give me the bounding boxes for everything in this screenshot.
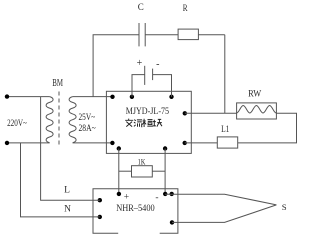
svg-text:R: R (183, 3, 188, 13)
svg-text:RW: RW (248, 89, 261, 99)
svg-text:N: N (64, 204, 71, 214)
svg-text:-: - (156, 59, 159, 70)
node: module right terminal lower (183, 141, 187, 145)
rheostat RW (237, 103, 277, 119)
svg-text:1K: 1K (138, 157, 146, 167)
svg-text:L: L (64, 185, 70, 195)
node: NHR left terminal L (98, 198, 102, 202)
node: NHR top terminal -1 (163, 192, 167, 196)
svg-text:C: C (138, 2, 144, 12)
svg-text:-: - (155, 193, 158, 203)
node: module top terminal 3 (169, 95, 173, 99)
wire: snubber left riser (93, 35, 139, 97)
node: module bottom terminal left (117, 146, 121, 150)
node: NHR left terminal N (98, 215, 102, 219)
wire: secondary bottom to module (73, 142, 113, 144)
wire: 1K right lead (152, 170, 165, 172)
wire: secondary top to module (73, 96, 113, 98)
wire: module to RW (185, 112, 237, 114)
svg-text:220V~: 220V~ (7, 119, 27, 129)
svg-text:L1: L1 (221, 125, 229, 135)
svg-text:S: S (282, 202, 287, 212)
svg-text:+: + (124, 192, 129, 202)
svg-text:NHR–5400: NHR–5400 (116, 203, 155, 213)
wire: L1 to module (185, 142, 218, 144)
controller NHR-5400 box (93, 189, 178, 234)
node: 220V bottom terminal (5, 141, 9, 145)
wire: module bottom right to NHR (164, 149, 166, 194)
node: 220V top terminal (5, 94, 9, 98)
transformer core (58, 92, 60, 148)
svg-text:25V~: 25V~ (79, 113, 96, 123)
resistor 1K (132, 166, 153, 177)
module U1 MJYD-JL-75 box (106, 91, 191, 153)
sensor probe S lower wire (172, 205, 276, 223)
capacitor C (139, 23, 145, 46)
wire: C to R (145, 34, 178, 36)
wire: 1K left lead (119, 170, 132, 172)
node: module bottom terminal right (163, 146, 167, 150)
node: module top terminal 2 (130, 95, 134, 99)
wire: RW to right edge (238, 113, 297, 143)
wire: R to right riser (198, 34, 224, 36)
node: module left terminal (110, 141, 114, 145)
wire: N line (21, 143, 100, 217)
node: NHR top terminal -2 (170, 192, 174, 196)
node: module right terminal upper (183, 111, 187, 115)
inductor L1 (217, 137, 237, 148)
svg-text:MJYD-JL-75: MJYD-JL-75 (126, 107, 170, 117)
node: NHR right terminal (170, 220, 174, 224)
resistor R (178, 29, 198, 39)
wire: L line (41, 143, 100, 200)
label 交流模块 (drawn strokes) (125, 119, 162, 127)
wire: 220V top lead (7, 96, 41, 98)
svg-text:+: + (137, 58, 143, 69)
wire: module bottom left to NHR (118, 149, 120, 194)
wire: snubber right riser (224, 35, 226, 114)
transformer BM secondary winding (69, 97, 76, 143)
transformer BM primary winding (41, 97, 54, 143)
sensor probe S upper wire (165, 194, 276, 205)
svg-text:BM: BM (52, 77, 63, 89)
wire: 220V bottom lead (7, 142, 41, 144)
capacitor C1 electrolytic (battery style) (132, 66, 172, 97)
node: module top terminal 1 (110, 95, 114, 99)
node: NHR top terminal + (117, 192, 121, 196)
svg-text:28A~: 28A~ (79, 124, 96, 134)
